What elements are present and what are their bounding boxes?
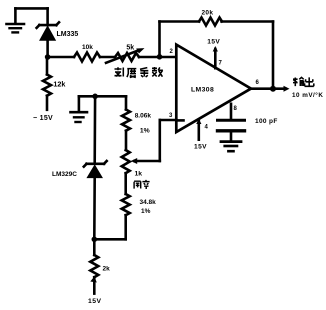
svg-text:− 15V: − 15V [33, 115, 53, 122]
wire node A to R2 [48, 56, 74, 59]
svg-text:20k: 20k [202, 9, 214, 16]
minus mark at pin3 [179, 119, 184, 122]
pin 7 supply stub [207, 39, 222, 68]
系 [140, 68, 148, 77]
svg-text:1%: 1% [140, 127, 150, 134]
resistor R5 8.06k 1% [122, 110, 151, 151]
svg-text:5k: 5k [126, 44, 134, 51]
svg-text:LM329C: LM329C [52, 171, 77, 178]
capacitor C1 100 pF [218, 118, 278, 141]
ground GND3 below C1 [221, 142, 241, 152]
svg-text:10 mV/°K: 10 mV/°K [292, 91, 323, 99]
svg-text:1%: 1% [141, 208, 151, 215]
svg-text:100 pF: 100 pF [255, 118, 278, 125]
resistor R2 10k [74, 44, 100, 62]
svg-text:10k: 10k [82, 44, 93, 51]
wire pin6 output [251, 87, 286, 90]
ground GND2 [71, 112, 88, 122]
出 [305, 77, 314, 86]
wire node C left to GND2 [79, 95, 95, 98]
ground GND1 top-left [7, 8, 25, 32]
node C (reference divider top) [92, 94, 98, 100]
零 [142, 180, 149, 189]
刻 [115, 67, 124, 76]
svg-text:LM308: LM308 [191, 87, 214, 94]
label 输出 (output) drawn strokes [293, 77, 314, 86]
wire feedback top left segment [160, 20, 200, 23]
wire R2 to R3 [100, 56, 115, 59]
label 刻度系数 (scale factor) drawn strokes [115, 67, 163, 78]
调 [134, 181, 141, 188]
wire R3 to pin2 [139, 56, 176, 59]
node A: LM335 anode junction [45, 54, 51, 60]
svg-text:34.8k: 34.8k [140, 199, 157, 206]
svg-text:12k: 12k [53, 80, 65, 89]
wire feedback right down to output node [272, 22, 275, 89]
label 调零 (zero adjust) drawn strokes [134, 180, 149, 189]
svg-text:15V: 15V [88, 298, 102, 305]
output arrowhead [284, 86, 290, 92]
pin 8 stub to C1 [231, 104, 238, 119]
度 [127, 69, 136, 78]
svg-text:2k: 2k [103, 266, 111, 273]
数 [152, 67, 163, 77]
wire node C right to R5 [95, 95, 126, 98]
输 [293, 77, 304, 86]
wiper arrowhead into R6 [131, 158, 138, 164]
wire R7 bottom to node D [94, 238, 125, 241]
svg-text:1k: 1k [135, 171, 143, 178]
wire node A down to R1 [46, 57, 49, 75]
wire top net: GND1 to LM335 cathode [15, 7, 47, 10]
svg-text:8.06k: 8.06k [135, 113, 152, 120]
zener diode U3 LM329C [52, 96, 107, 239]
svg-text:15V: 15V [207, 39, 220, 46]
resistor R1 12k [43, 75, 65, 110]
potentiometer R6 1k (zero adjust) [122, 150, 143, 194]
resistor R7 34.8k 1% [122, 194, 156, 239]
pin 4 supply stub [194, 119, 209, 151]
resistor R4 20k [199, 9, 222, 25]
resistor R8 2k [90, 239, 110, 293]
wire feedback top right segment [222, 20, 274, 23]
svg-text:LM335: LM335 [57, 31, 79, 38]
wire pin3 network [160, 119, 177, 122]
potentiometer R3 5k (scale factor) [106, 44, 145, 62]
op-amp U1 LM308 [169, 45, 260, 132]
wire feedback: node B up [158, 22, 161, 58]
node B feedback junction [157, 54, 163, 60]
zener diode U2 LM335 [37, 22, 79, 57]
node E output junction [270, 86, 276, 92]
svg-text:15V: 15V [194, 144, 207, 151]
node D bottom junction [92, 237, 98, 243]
